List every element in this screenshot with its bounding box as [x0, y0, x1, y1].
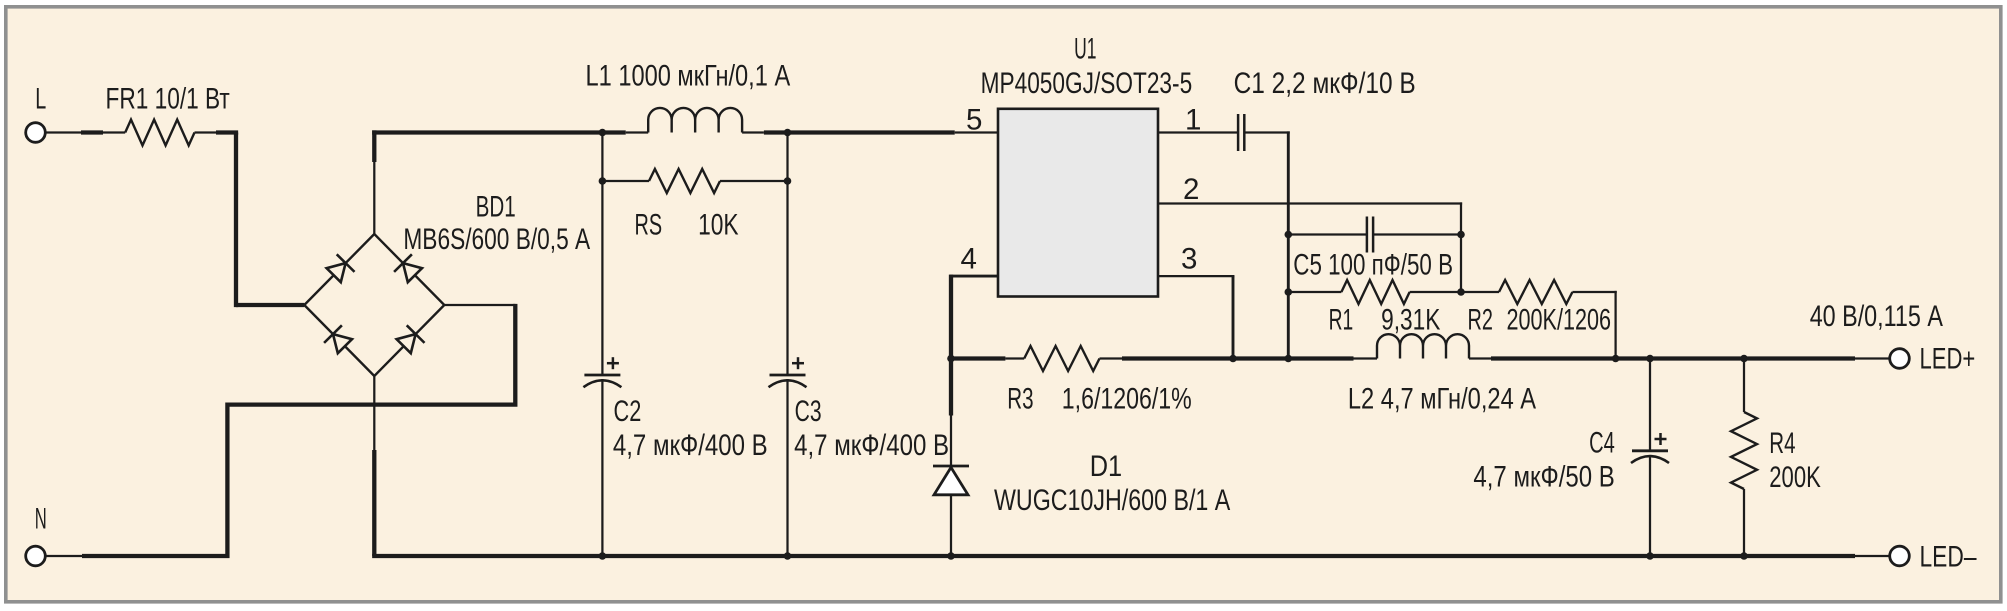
svg-text:R2: R2 — [1468, 304, 1493, 337]
wire R4 upper — [1743, 359, 1745, 413]
label R4 — [1769, 427, 1795, 460]
wire C5 line — [1288, 233, 1461, 235]
node top rail right — [784, 129, 792, 137]
svg-text:4,7 мкФ/50 В: 4,7 мкФ/50 В — [1473, 461, 1614, 494]
resistor RS — [602, 169, 787, 193]
bridge diode top-left — [327, 254, 355, 282]
wire v2 mid — [1460, 235, 1462, 293]
wire bridge right to N — [82, 304, 515, 556]
terminal L — [26, 123, 46, 143]
label R2 value — [1507, 304, 1612, 337]
label C3 — [795, 395, 822, 428]
label MB6S/600V/0.5A — [403, 223, 590, 256]
pin 2 label — [1183, 173, 1199, 206]
wire main rail mid — [1122, 356, 1377, 360]
label C1 — [1234, 67, 1416, 100]
resistor R1 — [1288, 280, 1461, 304]
wire L to FR1 — [45, 131, 125, 133]
label C2 value — [613, 429, 768, 462]
svg-text:LED–: LED– — [1920, 541, 1977, 574]
wire bridge top to rail — [372, 130, 376, 234]
wire FR1 to bridge left — [195, 133, 305, 308]
svg-text:U1: U1 — [1074, 33, 1096, 66]
resistor R4 — [1731, 412, 1757, 489]
wire R4 lower — [1743, 489, 1745, 556]
svg-text:4,7 мкФ/400 В: 4,7 мкФ/400 В — [794, 429, 949, 462]
label C3 value — [794, 429, 949, 462]
capacitor C4 — [1631, 433, 1669, 463]
svg-text:C1 2,2 мкФ/10 В: C1 2,2 мкФ/10 В — [1234, 67, 1416, 100]
bridge diode top-right — [394, 254, 422, 282]
node C5 left — [1285, 231, 1293, 239]
wire pin4 — [950, 275, 998, 416]
svg-text:N: N — [35, 502, 47, 535]
svg-text:9,31K: 9,31K — [1381, 304, 1441, 337]
wire RS left — [601, 133, 603, 182]
label R4 value — [1769, 461, 1821, 494]
svg-text:200K: 200K — [1769, 461, 1821, 494]
svg-text:BD1: BD1 — [476, 190, 516, 223]
svg-text:3: 3 — [1181, 243, 1197, 276]
svg-text:40 В/0,115 А: 40 В/0,115 А — [1810, 300, 1943, 333]
svg-text:L: L — [35, 82, 46, 115]
inductor L2 — [1377, 334, 1469, 358]
label C4 — [1589, 427, 1615, 460]
node R4 bottom — [1740, 552, 1748, 560]
svg-text:200K/1206: 200K/1206 — [1507, 304, 1612, 337]
capacitor C5 — [1367, 217, 1373, 253]
svg-text:R4: R4 — [1769, 427, 1795, 460]
node R1 left — [1285, 288, 1293, 296]
op-amp U1 body — [998, 109, 1158, 297]
svg-text:4: 4 — [961, 243, 977, 276]
node RS left — [599, 177, 607, 185]
wire C1 to corner — [1244, 131, 1290, 234]
resistor FR1 — [125, 120, 194, 146]
svg-text:C5 100 пФ/50 В: C5 100 пФ/50 В — [1293, 248, 1453, 281]
label 10K — [698, 209, 739, 242]
node v1 rail — [1285, 355, 1293, 363]
svg-text:WUGC10JH/600 В/1 А: WUGC10JH/600 В/1 А — [994, 484, 1231, 517]
svg-text:LED+: LED+ — [1920, 343, 1976, 376]
wire C3 lower — [786, 379, 788, 556]
wire top rail — [372, 130, 998, 134]
label RS — [635, 209, 663, 242]
pin 1 label — [1185, 104, 1201, 137]
node C3 bottom — [784, 552, 792, 560]
wire pin4 to D1 — [950, 416, 952, 467]
node top rail left — [599, 129, 607, 137]
svg-text:1,6/1206/1%: 1,6/1206/1% — [1062, 383, 1192, 416]
label C5 — [1293, 248, 1453, 281]
svg-text:L2 4,7 мГн/0,24 А: L2 4,7 мГн/0,24 А — [1348, 383, 1536, 416]
capacitor C2 — [583, 357, 621, 387]
label LED- — [1920, 541, 1977, 574]
wire C3 upper — [786, 181, 788, 375]
resistor R3 — [951, 346, 1122, 371]
wire RS right — [786, 133, 788, 182]
wire v1 lower — [1287, 292, 1290, 359]
svg-text:RS: RS — [635, 209, 663, 242]
label C4 value — [1473, 461, 1614, 494]
svg-text:R1: R1 — [1329, 304, 1354, 337]
svg-text:C4: C4 — [1589, 427, 1615, 460]
svg-text:2: 2 — [1183, 173, 1199, 206]
svg-text:D1: D1 — [1090, 450, 1122, 483]
wire pin1 — [1158, 131, 1238, 133]
terminal LED+ — [1890, 349, 1910, 369]
node C4 bottom — [1646, 552, 1654, 560]
label N — [35, 502, 47, 535]
wire pin2 — [1158, 202, 1462, 234]
pin 4 label — [961, 243, 977, 276]
svg-text:R3: R3 — [1007, 383, 1033, 416]
wire C4 lower — [1649, 455, 1651, 556]
svg-text:4,7 мкФ/400 В: 4,7 мкФ/400 В — [613, 429, 768, 462]
node C4 top — [1646, 355, 1654, 363]
label R1 value — [1381, 304, 1441, 337]
label L1 1000uH — [586, 60, 791, 93]
svg-text:FR1 10/1 Вт: FR1 10/1 Вт — [106, 82, 230, 115]
svg-text:10K: 10K — [698, 209, 739, 242]
label R1 — [1329, 304, 1354, 337]
label L2 value — [1348, 383, 1536, 416]
label WUGC10JH — [994, 484, 1231, 517]
resistor R2 — [1461, 280, 1617, 359]
bridge BD1 outline — [304, 234, 444, 376]
node pin4 rail — [947, 355, 955, 363]
label R2 — [1468, 304, 1493, 337]
label MP4050GJ/SOT23-5 — [981, 67, 1193, 100]
label 40V/0.115A — [1810, 300, 1943, 333]
node C5 right — [1457, 231, 1465, 239]
wire main rail right — [1469, 357, 1890, 359]
inductor L1 — [648, 108, 742, 133]
node C2 bottom — [599, 552, 607, 560]
label L — [35, 82, 46, 115]
node R2 rail — [1612, 355, 1620, 363]
svg-text:C2: C2 — [614, 395, 642, 428]
svg-text:MB6S/600 В/0,5 А: MB6S/600 В/0,5 А — [403, 223, 590, 256]
node RS right — [784, 177, 792, 185]
wire D1 to bottom rail — [950, 495, 952, 556]
wire N to rail — [45, 555, 84, 557]
wire C4 upper — [1649, 359, 1651, 451]
node R4 top — [1740, 355, 1748, 363]
capacitor C1 — [1238, 114, 1244, 151]
svg-text:C3: C3 — [795, 395, 822, 428]
svg-text:5: 5 — [966, 104, 982, 137]
pin 3 label — [1181, 243, 1197, 276]
label C2 — [614, 395, 642, 428]
label BD1 — [476, 190, 516, 223]
wire C2 upper — [601, 181, 603, 375]
svg-text:L1 1000 мкГн/0,1 А: L1 1000 мкГн/0,1 А — [586, 60, 791, 93]
label D1 — [1090, 450, 1122, 483]
wire C2 lower — [601, 379, 603, 556]
label LED+ — [1920, 343, 1976, 376]
node pin3 rail — [1229, 355, 1237, 363]
pin 5 label — [966, 104, 982, 137]
diode D1 — [933, 466, 969, 495]
wire pin3 — [1158, 276, 1234, 358]
svg-text:MP4050GJ/SOT23-5: MP4050GJ/SOT23-5 — [981, 67, 1193, 100]
node D1 bottom — [947, 552, 955, 560]
bridge diode bottom-right — [397, 325, 425, 353]
wire bridge bottom to rail — [373, 376, 375, 556]
terminal N — [26, 546, 46, 566]
terminal LED- — [1890, 546, 1910, 566]
wire bottom rail — [372, 554, 1890, 558]
wire v1 mid — [1287, 235, 1290, 293]
label R3 value — [1062, 383, 1192, 416]
label FR1 10/1 Vt — [106, 82, 230, 115]
bridge diode bottom-left — [324, 325, 352, 353]
label U1 — [1074, 33, 1096, 66]
label R3 — [1007, 383, 1033, 416]
node R1 right — [1457, 288, 1465, 296]
capacitor C3 — [769, 357, 807, 387]
